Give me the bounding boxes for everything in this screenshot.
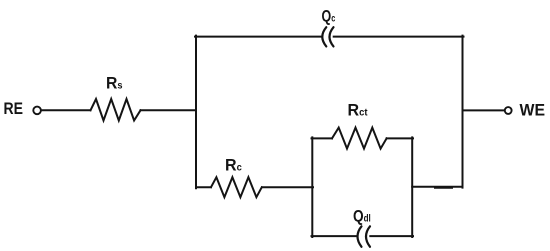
wire top branch left [195,36,322,38]
wire inner box to right vertical [412,186,462,188]
CPE Qdl [358,226,371,247]
wire Rs to node A [141,109,197,111]
node RE terminal [33,107,41,115]
wire inner box top right [387,137,413,139]
resistor Rc [211,177,262,197]
wire inner box left vertical [311,137,313,237]
wire junction overlap segment [435,187,452,189]
wire Rc to inner box [262,186,313,188]
svg-text:WE: WE [520,101,546,120]
wire top branch right [334,36,464,38]
wire WE stub [463,109,505,111]
CPE Qc [322,27,333,46]
svg-text:Qdl: Qdl [353,207,371,226]
wire RE to Rs [42,109,91,111]
wire right vertical [462,36,464,188]
svg-text:Rs: Rs [106,73,123,92]
svg-text:Rc: Rc [225,156,242,175]
wire bottom branch to Rc [196,186,211,188]
svg-text:RE: RE [4,99,24,118]
wire inner box bottom left [312,235,357,237]
node WE terminal [505,107,512,114]
resistor Rct [332,128,387,149]
svg-text:Qc: Qc [322,7,336,26]
resistor Rs [91,99,141,121]
wire inner box bottom right [370,235,413,237]
wire inner box top left [312,137,333,139]
wire inner box right vertical [411,137,413,237]
wire node A left vertical [195,36,197,189]
svg-text:Rct: Rct [348,100,369,119]
